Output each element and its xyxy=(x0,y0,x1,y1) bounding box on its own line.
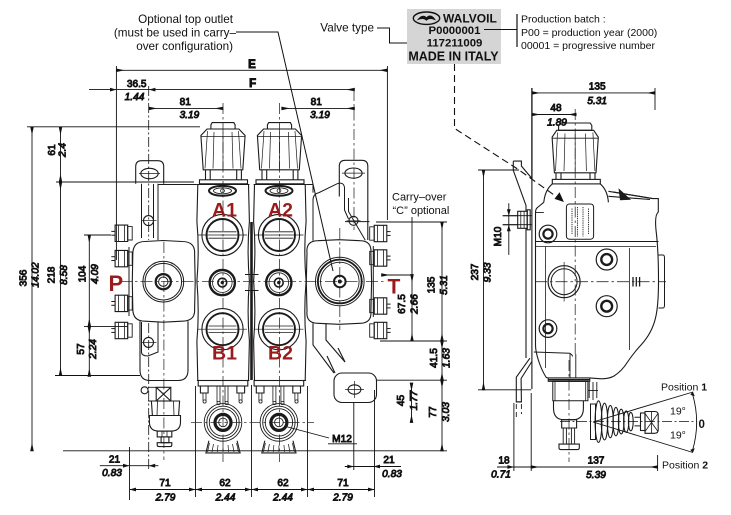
dim 48 xyxy=(532,114,576,116)
bracket bottom-right xyxy=(327,348,377,403)
dim 61 / 218 xyxy=(60,127,62,182)
svg-text:21: 21 xyxy=(383,455,395,466)
svg-text:71: 71 xyxy=(337,478,349,489)
bracket top-right xyxy=(339,160,369,240)
dim row 71/62/62/71 xyxy=(130,489,375,491)
centerline spool 2 xyxy=(279,103,281,462)
centerline P-T horizontal xyxy=(120,281,385,283)
svg-text:P00 = production year (2000): P00 = production year (2000) xyxy=(521,27,657,39)
cup xyxy=(554,401,584,420)
stud bolt right 4 xyxy=(370,322,391,338)
top oval port section 2 xyxy=(266,186,293,196)
dim 77 xyxy=(441,380,443,451)
bracket left strip xyxy=(141,184,158,356)
svg-text:1.63: 1.63 xyxy=(442,348,453,368)
svg-text:2.44: 2.44 xyxy=(272,493,293,504)
svg-text:Production batch :: Production batch : xyxy=(521,14,606,26)
svg-text:P: P xyxy=(109,271,124,296)
svg-text:5.39: 5.39 xyxy=(586,470,606,481)
dark wedge xyxy=(619,188,632,200)
dim E xyxy=(116,69,387,71)
dim 41.5 xyxy=(441,341,443,380)
svg-text:3.19: 3.19 xyxy=(180,110,200,121)
stud bolt right 2 xyxy=(370,250,391,266)
body rib lines xyxy=(545,247,547,369)
svg-text:2.44: 2.44 xyxy=(215,493,236,504)
svg-text:over configuration): over configuration) xyxy=(136,40,233,53)
mounting bracket plate side xyxy=(513,161,532,420)
right slim boss xyxy=(659,255,665,308)
svg-text:61: 61 xyxy=(47,144,58,156)
socket bolt mid-right-low xyxy=(596,296,617,317)
svg-text:2.79: 2.79 xyxy=(332,493,353,504)
inlet lower block xyxy=(140,321,188,380)
svg-text:3.19: 3.19 xyxy=(310,110,330,121)
flange band xyxy=(548,378,590,382)
stud bolt left 3 xyxy=(111,295,132,311)
svg-text:M10: M10 xyxy=(493,226,504,246)
right side ext lines xyxy=(376,221,447,223)
dim 104 / 57 xyxy=(88,235,90,326)
svg-text:36.5: 36.5 xyxy=(127,79,147,90)
svg-text:2.66: 2.66 xyxy=(410,294,421,315)
top oval port section 1 xyxy=(209,186,236,196)
dim 81 right xyxy=(282,107,355,109)
note: optional top outlet text xyxy=(114,13,237,53)
svg-text:00001 = progressive number: 00001 = progressive number xyxy=(521,40,655,52)
svg-text:77: 77 xyxy=(428,406,439,418)
svg-text:48: 48 xyxy=(550,103,562,114)
dim 237 xyxy=(483,170,485,390)
dim 67.5 xyxy=(411,275,413,342)
main silhouette xyxy=(536,191,659,378)
svg-text:81: 81 xyxy=(311,97,323,108)
svg-text:218: 218 xyxy=(47,266,58,283)
block top edge xyxy=(536,241,659,243)
svg-text:9.33: 9.33 xyxy=(483,262,494,282)
svg-text:B2: B2 xyxy=(268,343,293,365)
centerline inlet/relief vertical xyxy=(163,242,165,460)
section joint mid tabs xyxy=(245,275,259,291)
flange small xyxy=(562,420,577,428)
dim 18 xyxy=(497,466,531,468)
svg-text:“C” optional: “C” optional xyxy=(393,205,450,217)
svg-text:137: 137 xyxy=(588,456,605,467)
dim 21 left xyxy=(100,465,159,467)
port A1 xyxy=(198,214,247,255)
dim 135 right xyxy=(441,222,443,341)
svg-text:14.02: 14.02 xyxy=(31,262,42,288)
svg-text:F: F xyxy=(249,78,256,90)
svg-text:4.09: 4.09 xyxy=(90,264,101,284)
top ridge lines xyxy=(608,192,652,200)
centerline spool 1 xyxy=(222,103,224,462)
ledge line bottom-left xyxy=(534,352,573,357)
stud bolt left 2 xyxy=(111,250,132,266)
spool mid circle section 2 xyxy=(266,270,291,295)
svg-text:5.31: 5.31 xyxy=(439,275,450,295)
link pin right xyxy=(589,382,597,400)
svg-text:8.58: 8.58 xyxy=(59,265,70,285)
centerline outlet vertical xyxy=(339,228,341,330)
svg-text:117211009: 117211009 xyxy=(427,37,483,49)
svg-text:P0000001: P0000001 xyxy=(429,25,482,37)
nameplate gray box xyxy=(407,9,501,64)
svg-text:Optional top outlet: Optional top outlet xyxy=(138,13,234,26)
svg-text:A2: A2 xyxy=(268,200,293,222)
side body xyxy=(534,188,665,378)
svg-text:WALVOIL: WALVOIL xyxy=(443,12,497,26)
centerline bottom caps horizontal xyxy=(191,421,314,423)
spool mid circle section 1 xyxy=(210,270,235,295)
bottom cap section 2 xyxy=(254,381,304,453)
socket bolt bottom-left xyxy=(539,320,557,338)
svg-text:Position 1: Position 1 xyxy=(661,382,707,394)
svg-text:M12: M12 xyxy=(332,434,352,445)
dim 356 xyxy=(31,127,33,451)
svg-text:MADE IN ITALY: MADE IN ITALY xyxy=(408,50,499,64)
dim M10 xyxy=(503,215,532,217)
outlet lower tab xyxy=(313,323,345,373)
bottom ext verticals xyxy=(129,447,131,500)
relief cap section 1 xyxy=(200,123,248,184)
svg-text:0: 0 xyxy=(699,419,705,431)
lever shaft and knob xyxy=(635,412,659,434)
svg-text:(must be used in carry–: (must be used in carry– xyxy=(114,27,237,40)
svg-text:356: 356 xyxy=(19,269,30,286)
lower spool assembly xyxy=(548,354,598,450)
section joint band xyxy=(250,222,253,380)
svg-text:0.83: 0.83 xyxy=(382,469,402,480)
centerline spool vertical xyxy=(574,109,576,357)
dim 135 top xyxy=(532,92,655,94)
svg-text:81: 81 xyxy=(180,97,192,108)
leader to top outlet plug xyxy=(236,32,333,271)
dim 45 xyxy=(411,383,413,423)
leader valve type xyxy=(377,28,422,43)
walvoil logo oval xyxy=(413,12,439,24)
cast mark xyxy=(633,277,640,287)
dim 21 right xyxy=(345,466,401,468)
outlet end plate xyxy=(306,183,373,373)
section 1 body xyxy=(197,185,250,381)
svg-text:71: 71 xyxy=(159,478,171,489)
svg-text:E: E xyxy=(248,59,256,71)
svg-text:2.4: 2.4 xyxy=(58,143,69,158)
guide block xyxy=(553,381,588,400)
centerline lower spool xyxy=(568,360,570,462)
centerline bore horizontal xyxy=(535,281,666,283)
svg-text:B1: B1 xyxy=(212,343,237,365)
svg-text:0.71: 0.71 xyxy=(491,470,511,481)
stud bolt right 1 xyxy=(370,225,391,241)
svg-text:135: 135 xyxy=(427,276,438,293)
svg-text:62: 62 xyxy=(277,478,289,489)
stud bolt left 4 xyxy=(111,322,132,338)
svg-text:Carry–over: Carry–over xyxy=(392,192,447,204)
svg-text:A1: A1 xyxy=(212,200,237,222)
ext lines xyxy=(531,88,533,179)
svg-text:Valve type: Valve type xyxy=(320,22,374,35)
ext lines top xyxy=(115,66,117,260)
bell xyxy=(544,184,609,202)
foot plate xyxy=(559,444,579,450)
svg-text:62: 62 xyxy=(219,478,231,489)
dim 137 xyxy=(531,466,657,468)
M12 callout xyxy=(284,426,329,438)
production batch bracket xyxy=(484,29,517,31)
dim 36.5 + F xyxy=(89,89,354,91)
M10 bolt xyxy=(503,210,531,230)
port B1 xyxy=(198,309,247,350)
svg-text:T: T xyxy=(388,276,401,299)
svg-text:41.5: 41.5 xyxy=(429,348,440,368)
inlet end plate xyxy=(129,241,195,381)
bottom ext xyxy=(513,403,515,471)
svg-text:1.44: 1.44 xyxy=(125,92,145,103)
svg-text:57: 57 xyxy=(76,343,87,355)
lever boot xyxy=(591,401,634,443)
body top face segments xyxy=(158,185,313,193)
svg-text:3.03: 3.03 xyxy=(441,402,452,422)
port B2 xyxy=(255,309,304,350)
carry-over label xyxy=(392,192,449,218)
socket bolt mid-right-up xyxy=(596,249,617,270)
port A2 xyxy=(255,214,304,255)
svg-text:19°: 19° xyxy=(670,406,686,418)
svg-text:104: 104 xyxy=(78,265,89,282)
svg-text:237: 237 xyxy=(470,263,481,280)
svg-text:2.79: 2.79 xyxy=(155,493,176,504)
socket bolt top-left xyxy=(539,225,557,243)
svg-text:5.31: 5.31 xyxy=(587,96,607,107)
svg-text:18: 18 xyxy=(498,456,510,467)
stud bolt right 3 xyxy=(370,298,391,314)
section 2 body xyxy=(254,185,307,381)
svg-text:19°: 19° xyxy=(670,430,686,442)
dashed leader from nameplate to side view plate xyxy=(455,64,561,199)
lever fan xyxy=(560,392,697,453)
bore circle xyxy=(548,262,580,302)
svg-text:2.24: 2.24 xyxy=(88,339,99,360)
stud bolt left 1 xyxy=(111,225,132,241)
svg-text:1.89: 1.89 xyxy=(547,118,567,129)
svg-text:Position 2: Position 2 xyxy=(662,460,708,472)
relief cap section 2 xyxy=(256,123,304,184)
dim 81 left xyxy=(149,107,223,109)
bracket top-left xyxy=(136,161,164,184)
nameplate on valve xyxy=(566,204,593,239)
centerline right bracket vertical xyxy=(353,90,355,230)
svg-text:21: 21 xyxy=(109,454,121,465)
svg-text:1.77: 1.77 xyxy=(409,390,420,410)
svg-text:45: 45 xyxy=(396,395,407,407)
svg-text:0.83: 0.83 xyxy=(102,468,122,479)
bottom cap section 1 xyxy=(198,381,248,453)
spool shank xyxy=(570,354,576,378)
svg-text:135: 135 xyxy=(589,82,606,93)
relief valve bottom-left xyxy=(141,387,180,447)
outlet top tower xyxy=(313,183,349,241)
carry-over arrow xyxy=(382,217,412,275)
side cap xyxy=(544,123,609,202)
